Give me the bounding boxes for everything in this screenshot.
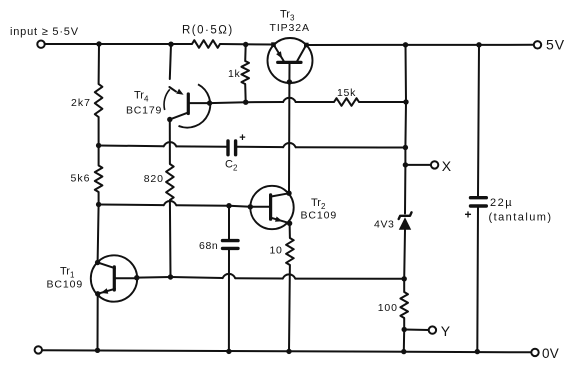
node 22u bottom junction (475, 349, 480, 354)
wire hop over 10 lead (283, 274, 296, 278)
wire right rail top segment (405, 45, 408, 102)
svg-text:R(0·5Ω): R(0·5Ω) (182, 25, 234, 37)
node 22u top junction (476, 42, 481, 47)
node left rail C2 junction (96, 143, 101, 148)
transistor Tr2 BC109 (250, 186, 293, 229)
terminal 5V (534, 41, 541, 48)
svg-text:22µ: 22µ (490, 197, 513, 209)
wire crossing to 15k (296, 101, 334, 103)
node 1k top junction (243, 42, 248, 47)
wire C2 row left (99, 145, 164, 148)
node Tr4 base junction (207, 100, 212, 105)
wire top rail between R and Tr3 emitter (220, 43, 274, 46)
node Tr3 base junction (287, 79, 292, 84)
capacitor 68n bottom plate (223, 247, 239, 250)
wire Y node to bottom rail (403, 330, 405, 352)
wire Tr4 base to 1k bottom (210, 101, 246, 104)
svg-text:(tantalum): (tantalum) (489, 212, 553, 224)
terminal Y (429, 326, 436, 333)
wire Tr3 base to Tr2 collector (288, 82, 290, 193)
wire node to 5k6 (98, 146, 100, 166)
wire 1k node toward Tr3 base crossing (246, 101, 283, 103)
svg-text:4V3: 4V3 (374, 219, 394, 231)
wire 1k bottom lead (244, 84, 247, 102)
wire Tr4 emitter lead vertical (170, 44, 171, 79)
wire 68n top lead (228, 206, 230, 239)
wire 1k top lead (244, 45, 247, 62)
node X junction (403, 162, 408, 167)
node 10 bottom junction (286, 349, 291, 354)
svg-text:820: 820 (144, 173, 164, 185)
svg-text:BC109: BC109 (301, 210, 338, 222)
wire hop over 820 lead at base row (164, 201, 177, 205)
wire Tr2 base row left (99, 204, 164, 207)
terminal X (431, 161, 438, 168)
svg-text:+: + (465, 208, 473, 222)
wire 100 to Y node (403, 318, 405, 330)
node Tr1 collector (95, 260, 100, 265)
wire left rail to Tr1 collector (98, 205, 99, 263)
wire X stub (405, 164, 431, 166)
node Tr1 emitter (95, 291, 100, 296)
wire right rail X to zener (404, 165, 406, 214)
svg-text:TIP32A: TIP32A (270, 22, 310, 34)
svg-text:X: X (442, 158, 452, 174)
capacitor C2 right plate (234, 141, 237, 155)
svg-text:BC109: BC109 (47, 279, 84, 291)
node Tr3 collector (304, 43, 309, 48)
wire 68n node to Tr2 base (229, 206, 250, 207)
wire base row to right rail (295, 278, 404, 280)
svg-text:10: 10 (270, 245, 283, 257)
capacitor 68n top plate (223, 239, 239, 242)
svg-text:5k6: 5k6 (71, 173, 91, 185)
transistor Tr1 BC109 (91, 255, 137, 301)
wire Tr2 emitter to 10 (289, 223, 291, 238)
wire Y stub (404, 329, 429, 332)
svg-text:+: + (239, 132, 246, 144)
wire Tr1 emitter to bottom rail (97, 294, 99, 351)
wire top rail input side (45, 43, 193, 45)
node Tr1 emitter bottom junction (95, 348, 100, 353)
transistor Tr3 TIP32A (268, 38, 313, 83)
capacitor 22u bottom plate (471, 204, 487, 207)
wire Tr1 base row left (137, 276, 171, 279)
node Tr2 base (248, 204, 253, 209)
wire hop over 68n lead (223, 274, 236, 278)
wire 2k7 to node (98, 117, 100, 146)
wire 22u bottom lead (476, 206, 479, 352)
terminal 0V right (531, 349, 538, 356)
wire top rail Tr3 collector to 5V (306, 44, 534, 46)
node Tr4 emitter top junction (168, 42, 173, 47)
node Y junction (402, 327, 407, 332)
svg-text:68n: 68n (199, 240, 218, 252)
wire 68n bottom lead (228, 248, 230, 351)
wire base row node to 100 (403, 279, 405, 292)
capacitor 22u top plate (471, 196, 487, 199)
resistor R 0.5 ohm (192, 40, 220, 48)
wire right rail 15k to C2 row (404, 102, 407, 148)
node Tr1 base (134, 275, 139, 280)
terminal 0V left (35, 346, 42, 353)
node Tr2 emitter junction (287, 221, 292, 226)
svg-text:15k: 15k (337, 87, 356, 99)
wire 820 to Tr1 base row (169, 200, 172, 277)
svg-text:100: 100 (378, 302, 398, 314)
node 100 bottom junction (401, 349, 406, 354)
resistor 5k6 (95, 166, 103, 193)
node Tr2 collector junction (286, 191, 291, 196)
wire bottom rail (42, 350, 532, 352)
wire Tr4 collector lead to 820 (169, 120, 171, 165)
capacitor C2 left plate (226, 141, 229, 155)
svg-text:input ≥ 5·5V: input ≥ 5·5V (10, 26, 79, 38)
svg-text:1k: 1k (228, 68, 240, 80)
svg-text:5V: 5V (546, 37, 565, 53)
terminal input (37, 41, 44, 48)
wire base row 820 to 68n hop (171, 277, 223, 278)
node 68n top junction (226, 203, 231, 208)
wire hop to C2 left plate (176, 145, 226, 147)
wire left rail top to 2k7 (98, 44, 100, 84)
wire hop over Tr3 base line at 15k row (283, 98, 296, 102)
wire right rail C2 row to X (404, 148, 406, 165)
svg-text:2k7: 2k7 (71, 97, 91, 109)
node Tr4 collector junction (167, 117, 172, 122)
node 820 bottom junction (168, 274, 173, 279)
node 15k right junction (403, 99, 408, 104)
resistor 820 (166, 164, 174, 200)
node 68n bottom junction (226, 349, 231, 354)
node right rail C2 row junction (403, 145, 408, 150)
resistor 10 (286, 238, 294, 265)
wire hop over 820 lead at C2 row (164, 142, 177, 146)
wire base row to 68n node (176, 204, 229, 206)
zener diode 4V3 (399, 212, 412, 219)
svg-text:Y: Y (441, 323, 451, 339)
node Tr3 emitter (271, 42, 276, 47)
wire 10 to bottom rail (288, 265, 291, 351)
node zener bottom junction (402, 276, 407, 281)
node 1k bottom junction (243, 100, 248, 105)
wire C2 right plate out (237, 146, 283, 148)
svg-text:BC179: BC179 (126, 105, 162, 117)
wire C2 row to right rail (296, 146, 406, 148)
node right rail top junction (403, 42, 408, 47)
resistor 15k (334, 98, 359, 106)
node input junction (96, 41, 101, 46)
wire zener to base row (403, 230, 406, 279)
wire 22u rail top segment (478, 45, 479, 196)
svg-text:0V: 0V (542, 346, 559, 361)
resistor 100 (400, 292, 408, 318)
node Tr2 base wire junction (96, 202, 101, 207)
wire hop over Tr3 base line at C2 row (283, 143, 296, 147)
wire 15k to right rail (359, 101, 406, 103)
resistor 1k (241, 61, 249, 84)
resistor 2k7 (95, 84, 103, 117)
transistor Tr4 BC179 (179, 84, 211, 127)
wire base row 68n to 10 hop (235, 277, 282, 279)
wire 5k6 to base node (98, 192, 100, 205)
